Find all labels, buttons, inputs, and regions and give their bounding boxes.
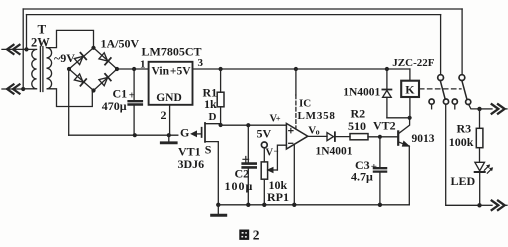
svg-text:D: D xyxy=(209,111,217,123)
wire op-amp V- supply pin to ground rail xyxy=(293,144,295,204)
ground symbol small xyxy=(168,135,170,142)
svg-text:K: K xyxy=(405,83,415,97)
wire to output arrow bottom xyxy=(480,204,493,206)
potentiometer RP1 bottom lead xyxy=(263,179,265,205)
svg-text:1k: 1k xyxy=(204,97,217,111)
node V+ supply dot xyxy=(294,67,298,71)
transistor VT1 source lead xyxy=(205,142,218,205)
capacitor C2 plates xyxy=(243,164,256,168)
svg-text:+: + xyxy=(276,114,281,124)
node C3 top junction dot xyxy=(378,135,382,139)
svg-text:9013: 9013 xyxy=(412,133,435,145)
bridge diode D3 bottom-left xyxy=(74,74,86,86)
svg-text:LM7805CT: LM7805CT xyxy=(142,44,202,58)
relay throw circle 4 xyxy=(466,99,471,104)
transistor VT1 gate bar xyxy=(201,128,203,137)
wire rail2 drop to relay contact A xyxy=(440,15,442,75)
wire op-amp output xyxy=(308,135,327,137)
svg-text:S: S xyxy=(205,143,212,157)
transformer T core xyxy=(40,47,43,92)
op-amp U2 LM358 triangle xyxy=(286,123,307,149)
transformer T primary winding xyxy=(23,49,36,88)
transistor VT2 base bar xyxy=(397,131,399,144)
svg-text:LED: LED xyxy=(451,174,476,188)
capacitor C3 leads xyxy=(379,137,381,205)
node D junction dot xyxy=(219,123,223,127)
relay K coil feed wire xyxy=(409,69,411,81)
resistor R1 leads xyxy=(220,69,222,125)
wire secondary bottom to bridge bottom xyxy=(50,89,92,107)
wire bridge DC+ to regulator input xyxy=(117,68,149,70)
capacitor C2 leads xyxy=(247,125,249,205)
node flyback diode top dot xyxy=(385,67,389,71)
wire top mains rail 1 xyxy=(23,8,462,10)
svg-text:G: G xyxy=(180,126,189,140)
svg-text:2: 2 xyxy=(161,108,167,122)
relay contact B arm xyxy=(462,81,467,99)
wire ground bus to VT1 gate xyxy=(69,134,178,136)
relay throw circle 1 xyxy=(429,99,434,104)
transformer T secondary winding xyxy=(47,48,52,89)
node bridge right dot xyxy=(115,67,119,71)
transistor VT2 emitter with arrow xyxy=(398,142,408,146)
node VT2 collector junction dot xyxy=(408,116,412,120)
capacitor C1 leads xyxy=(133,69,135,135)
capacitor C2 plus sign xyxy=(243,157,249,163)
node C2 top junction dot xyxy=(246,123,250,127)
svg-text:o: o xyxy=(316,128,320,137)
svg-text:+5V: +5V xyxy=(170,66,191,78)
svg-text:RP1: RP1 xyxy=(267,190,289,204)
svg-text:1N4001: 1N4001 xyxy=(316,146,353,158)
resistor R3 leads xyxy=(479,109,481,162)
relay contact A fixed circle xyxy=(438,75,444,81)
svg-text:V: V xyxy=(266,148,274,159)
transistor VT1 channel bar xyxy=(204,123,206,142)
svg-text:5V: 5V xyxy=(257,127,272,141)
svg-text:R3: R3 xyxy=(457,121,472,135)
relay throw 3 stub xyxy=(454,104,456,109)
terminal 5V circle xyxy=(261,142,267,148)
wire AC1 riser to rail 2 xyxy=(26,15,28,50)
bridge diode D2 top-right xyxy=(99,52,111,64)
node ground rail left dot xyxy=(216,203,220,207)
transistor VT1 gate arrow xyxy=(191,131,196,136)
wire to output arrow top xyxy=(480,108,493,110)
wire 5V terminal to RP1 xyxy=(263,148,265,162)
resistor R1 body xyxy=(217,92,224,107)
wire top mains rail 2 xyxy=(27,14,441,16)
node R3 top junction dot xyxy=(477,107,481,111)
wire D node to op-amp input xyxy=(221,124,287,126)
wire rail1 drop to relay contact B xyxy=(461,9,463,75)
node RP1 bottom dot xyxy=(262,203,266,207)
AC input terminal arrow top-left xyxy=(7,45,20,54)
svg-text:100μ: 100μ xyxy=(225,179,254,193)
resistor R2 body xyxy=(350,134,368,140)
wire op-amp V+ supply pin xyxy=(295,69,297,95)
svg-text:~9V: ~9V xyxy=(54,51,75,65)
bridge diode D4 bottom-right xyxy=(99,74,111,86)
node bridge top dot xyxy=(91,46,95,50)
capacitor C3 plates xyxy=(374,168,386,171)
relay throw 1 stub xyxy=(431,104,433,109)
potentiometer RP1 body xyxy=(261,162,267,179)
relay K linkage dashed line xyxy=(420,88,462,90)
wire AC input bottom to junction xyxy=(2,88,23,90)
svg-text:LM358: LM358 xyxy=(298,110,336,122)
node bridge bottom dot xyxy=(91,88,95,92)
op-amp plus marker xyxy=(289,128,293,132)
caption figure 2 glyph tu xyxy=(239,230,249,240)
wire throw 2 to bottom output xyxy=(446,104,480,205)
node C2 bottom dot xyxy=(246,203,250,207)
output terminal arrow top xyxy=(492,104,505,113)
svg-text:JZC-22F: JZC-22F xyxy=(392,57,434,69)
node regulator GND junction dot xyxy=(167,133,171,137)
relay K box xyxy=(401,81,419,97)
svg-text:Vin: Vin xyxy=(152,66,170,78)
regulator U1 LM7805CT box xyxy=(149,62,193,105)
svg-text:GND: GND xyxy=(156,92,182,104)
relay contact B fixed circle xyxy=(459,75,465,81)
wire bridge DC- drop xyxy=(68,69,70,135)
wire flyback diode bottom to collector xyxy=(387,117,410,119)
wire secondary top step to bridge top xyxy=(50,30,94,47)
svg-text:T: T xyxy=(38,22,47,37)
svg-text:VT2: VT2 xyxy=(373,119,396,133)
node op-amp V- ground dot xyxy=(292,203,296,207)
diode VD1 1N4001 flyback xyxy=(386,97,388,117)
wire diode to R2 xyxy=(335,136,350,138)
node bridge left dot xyxy=(67,67,71,71)
output terminal arrow bottom xyxy=(492,201,505,210)
relay K bottom lead xyxy=(409,97,411,118)
transistor VT1 drain lead xyxy=(205,124,221,126)
ground symbol main xyxy=(217,205,219,214)
relay throw circle 3 xyxy=(452,99,457,104)
svg-text:+: + xyxy=(129,90,135,102)
bridge rectifier frame xyxy=(69,48,117,91)
diode VD2 1N4001 output xyxy=(327,133,334,141)
svg-text:2W: 2W xyxy=(31,36,50,50)
wire throw 4 to top output xyxy=(469,104,480,109)
node AC1 junction dot xyxy=(24,47,28,51)
svg-text:−: − xyxy=(274,146,279,156)
wire AC2 riser to top rail xyxy=(22,9,24,89)
svg-text:4.7μ: 4.7μ xyxy=(351,169,373,183)
LED light arrows xyxy=(484,166,488,170)
capacitor C1 plates xyxy=(129,101,142,104)
node AC2 junction dot xyxy=(21,87,25,91)
wire R2 to VT2 base xyxy=(368,136,398,138)
svg-text:2: 2 xyxy=(253,227,260,242)
node C3 bottom dot xyxy=(378,203,382,207)
AC input terminal arrow bottom-left xyxy=(7,84,20,93)
node C1 bottom junction dot xyxy=(133,133,137,137)
resistor R3 body xyxy=(476,128,483,147)
svg-text:470μ: 470μ xyxy=(102,99,127,113)
wire wiper to op-amp inverting input xyxy=(277,145,286,170)
wire regulator output xyxy=(193,68,410,70)
node C1 top junction dot xyxy=(132,67,136,71)
svg-text:510: 510 xyxy=(348,119,366,133)
node LED bottom junction dot xyxy=(477,203,481,207)
svg-text:3: 3 xyxy=(198,57,204,69)
diode LED xyxy=(475,162,485,171)
svg-text:IC: IC xyxy=(299,97,311,109)
potentiometer RP1 wiper arrow xyxy=(268,168,273,173)
svg-text:3DJ6: 3DJ6 xyxy=(178,157,205,171)
relay throw circle 2 xyxy=(443,99,448,104)
svg-text:1N4001: 1N4001 xyxy=(343,86,380,98)
svg-text:1: 1 xyxy=(140,59,146,71)
node R1 top junction dot xyxy=(219,67,223,71)
wire ground rail xyxy=(218,204,409,206)
wire AC input top to junction xyxy=(2,48,27,50)
op-amp minus marker xyxy=(289,142,293,144)
relay contact A arm xyxy=(440,81,445,99)
transistor VT2 collector xyxy=(398,118,409,134)
svg-text:1A/50V: 1A/50V xyxy=(101,37,140,51)
bridge diode D1 top-left xyxy=(74,53,86,65)
svg-text:100k: 100k xyxy=(449,135,474,149)
regulator U1 pin2 wire xyxy=(169,105,171,135)
